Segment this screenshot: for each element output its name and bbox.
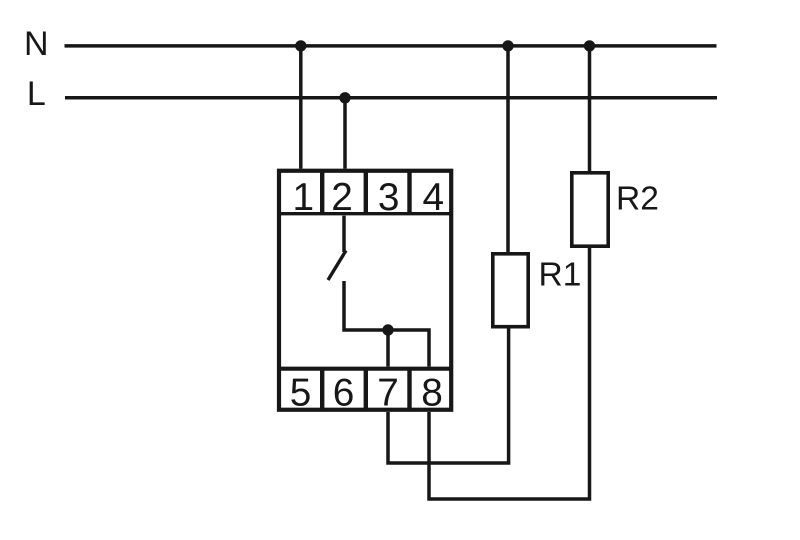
- junction dot: N bus / terminal 1: [295, 40, 306, 51]
- junction dot: L bus / terminal 2: [339, 92, 350, 103]
- svg-text:3: 3: [378, 176, 400, 219]
- terminal block bottom row background: [277, 367, 453, 413]
- junction dot: N bus / R2 branch: [584, 40, 595, 51]
- divider terminals 5|6: [320, 369, 324, 410]
- wire: switch fixed lead down, right to terminal 8, down and right to resistor R2 bottom: [344, 247, 590, 500]
- wire: N bus to resistor R2 top: [588, 46, 592, 172]
- wire: N bus to terminal 1: [299, 46, 303, 174]
- switch S1 blade (open contact): [328, 251, 346, 281]
- svg-text:N: N: [24, 25, 49, 63]
- wire: terminal 2 lead into switch: [342, 213, 346, 252]
- terminal block top row background: [277, 169, 453, 216]
- svg-text:2: 2: [331, 176, 353, 219]
- junction dot: switch node to terminals 7/8: [382, 324, 393, 335]
- divider terminals 7|8: [407, 369, 411, 410]
- divider terminals 1|2: [320, 171, 324, 214]
- divider terminals 3|4: [407, 171, 411, 214]
- svg-text:8: 8: [421, 371, 443, 414]
- svg-text:R2: R2: [616, 181, 659, 218]
- wire: N bus to resistor R1 top: [506, 46, 510, 253]
- svg-text:6: 6: [333, 371, 355, 414]
- svg-text:4: 4: [423, 176, 445, 219]
- wire: switch node to terminal 7, down and right up to resistor R1 bottom: [388, 327, 509, 463]
- junction dot: N bus / R1 branch: [502, 40, 513, 51]
- divider terminals 6|7: [364, 369, 368, 410]
- top terminal row bottom border: [277, 212, 453, 215]
- svg-text:7: 7: [377, 371, 399, 414]
- svg-text:L: L: [27, 75, 46, 113]
- resistor R2: [572, 173, 608, 246]
- wire: L bus to terminal 2: [343, 98, 347, 174]
- resistor R1: [493, 254, 528, 327]
- svg-text:1: 1: [293, 176, 315, 219]
- wire: N bus line: [65, 44, 717, 48]
- divider terminals 2|3: [364, 171, 368, 214]
- svg-text:5: 5: [290, 371, 312, 414]
- wire: L bus line: [65, 96, 717, 100]
- relay module box outline: [279, 171, 451, 410]
- svg-text:R1: R1: [539, 256, 582, 293]
- bottom terminal row top border: [277, 367, 453, 371]
